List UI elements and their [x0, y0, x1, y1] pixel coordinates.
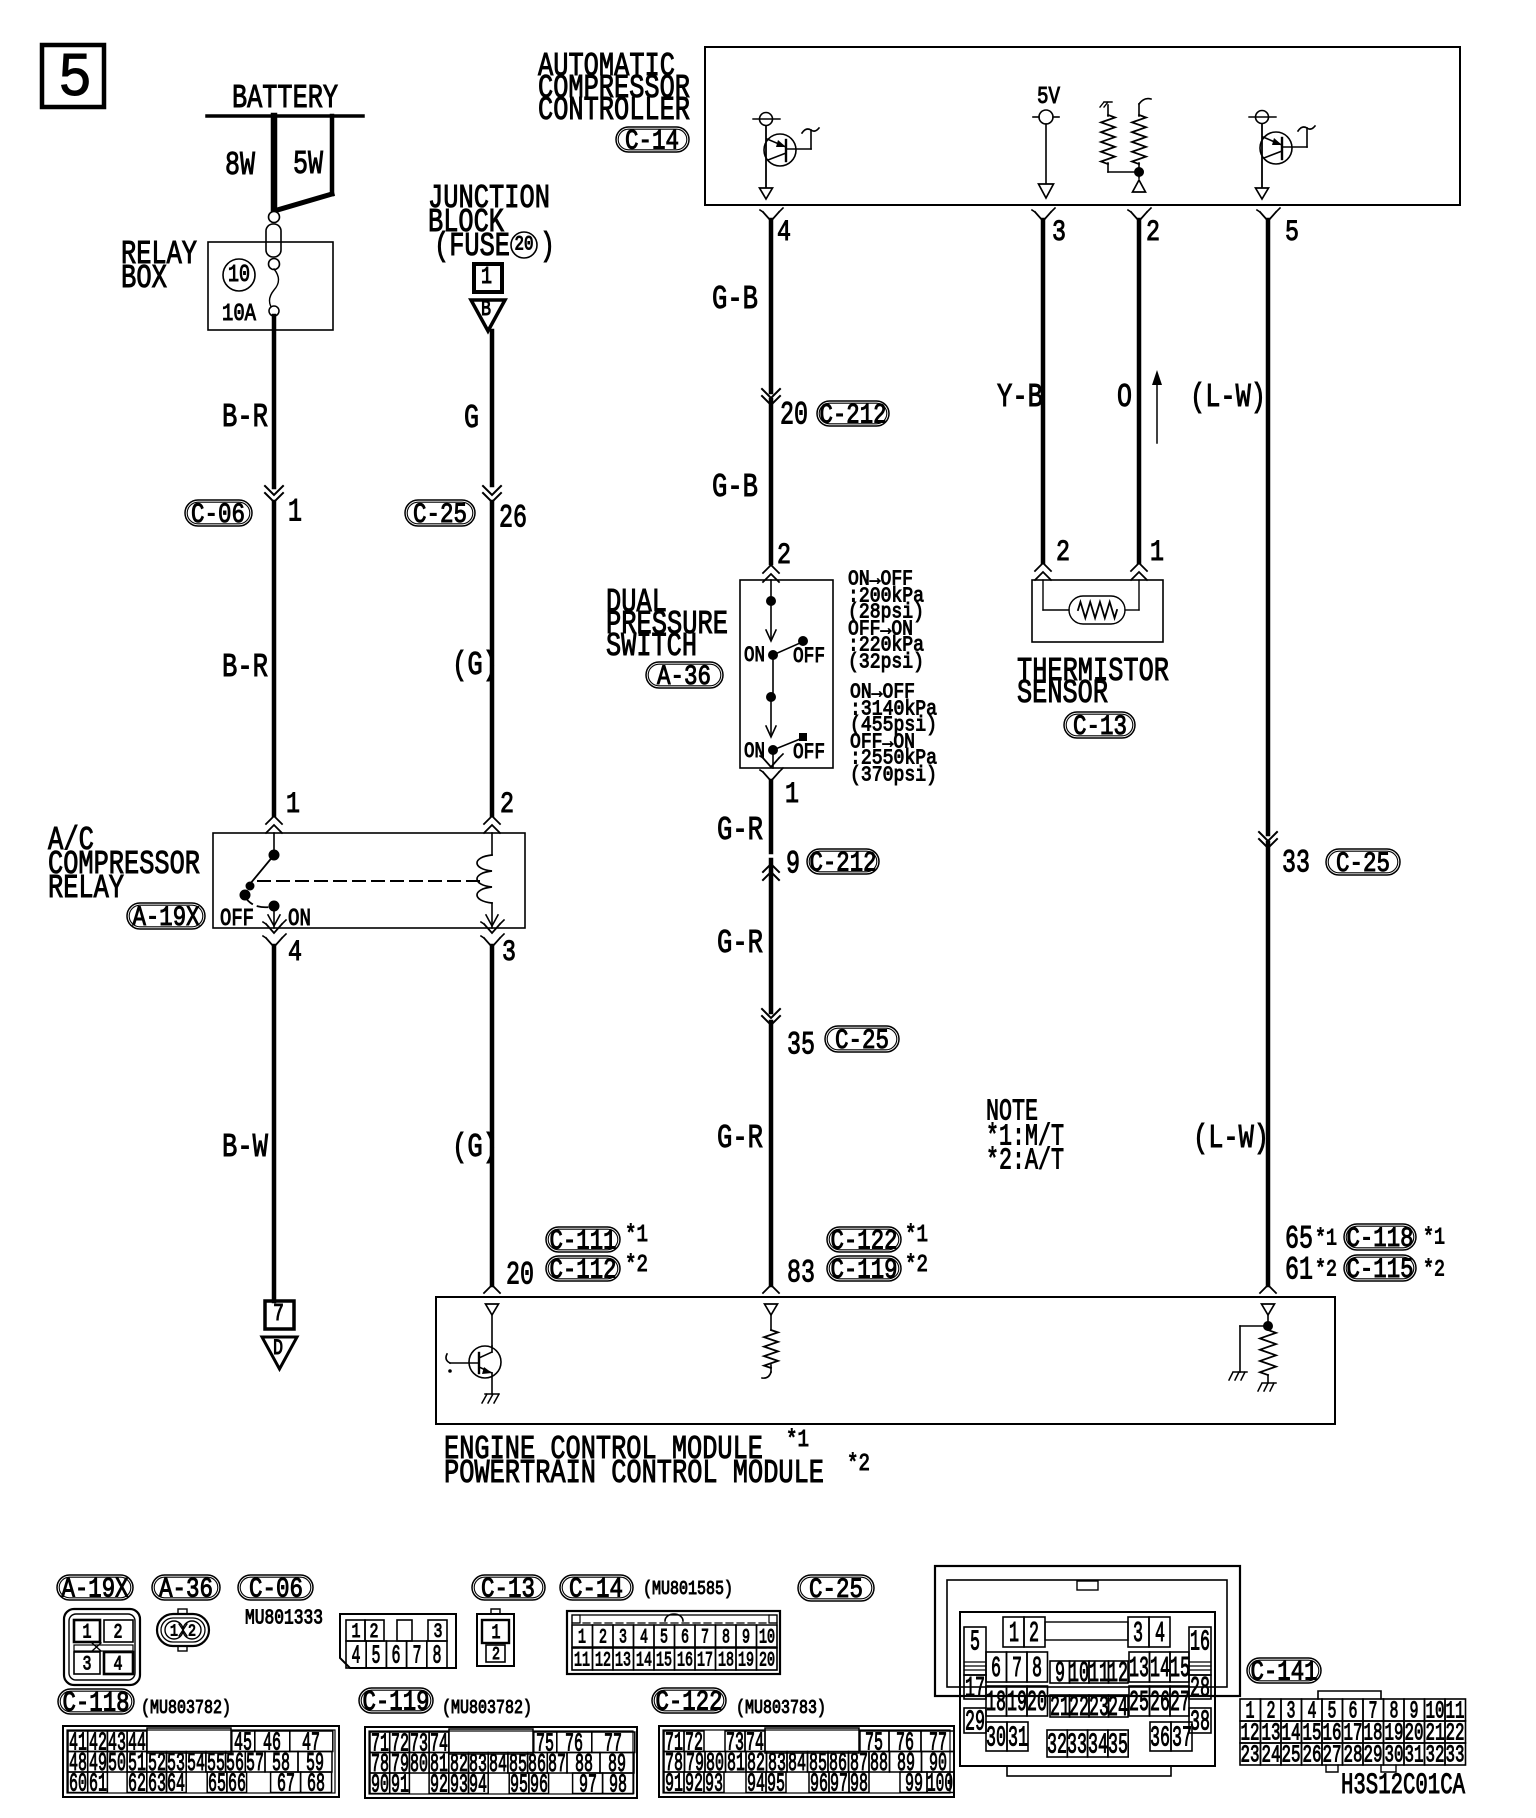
svg-text:): )	[540, 228, 555, 265]
svg-text:C-115: C-115	[1347, 1255, 1414, 1286]
relay pin 2	[484, 788, 514, 833]
connector C-13 pin view	[477, 1609, 514, 1666]
svg-text:A-36: A-36	[159, 1574, 213, 1605]
connector C-25 pin view (shell)	[935, 1566, 1240, 1696]
connector C-111/C-112 labels at ECM (pin 20)	[506, 1222, 648, 1293]
svg-text:28: 28	[1344, 1743, 1363, 1770]
C-25 side cells 5,16	[964, 1626, 1211, 1675]
svg-text:1: 1	[481, 264, 492, 291]
svg-text:5W: 5W	[293, 146, 323, 183]
svg-text:2: 2	[114, 1621, 123, 1644]
wire G-B (C-212 to pressure switch pin 2)	[712, 400, 771, 563]
svg-text:8: 8	[1032, 1652, 1042, 1685]
svg-text:60: 60	[69, 1769, 87, 1799]
thermistor sensor C-13	[1017, 580, 1169, 743]
A/C compressor relay A-19X box	[48, 822, 525, 934]
blank cell C-122 row1	[765, 1728, 859, 1753]
svg-text:11: 11	[1089, 1657, 1109, 1690]
connector A-36 pin view	[157, 1609, 209, 1651]
part number MU803782 (C-118)	[141, 1697, 231, 1719]
svg-text:16: 16	[677, 1649, 693, 1672]
svg-text:33: 33	[1282, 844, 1310, 881]
svg-text:*2: *2	[1423, 1257, 1445, 1283]
svg-text:2: 2	[599, 1626, 607, 1649]
svg-text:C-212: C-212	[810, 848, 877, 879]
svg-text:C-13: C-13	[1073, 712, 1127, 743]
svg-text:18: 18	[718, 1649, 734, 1672]
svg-text:5: 5	[970, 1626, 980, 1659]
relay pin 3	[481, 920, 516, 970]
svg-text:7: 7	[273, 1301, 284, 1328]
svg-text:80: 80	[410, 1749, 428, 1779]
part number MU801333	[245, 1607, 323, 1630]
svg-text:B-R: B-R	[222, 399, 268, 436]
svg-text:33: 33	[1446, 1743, 1465, 1770]
svg-text:14: 14	[1150, 1652, 1170, 1685]
connector label C-06	[238, 1574, 313, 1605]
svg-text:1: 1	[492, 1622, 501, 1645]
connector C-119 pin view	[365, 1727, 637, 1800]
svg-text:9: 9	[786, 845, 800, 882]
wire L-W (C-25 to ECM)	[1193, 843, 1269, 1285]
relay switch contact	[220, 833, 311, 933]
svg-text:4: 4	[352, 1641, 361, 1671]
connector C-118 pin view	[63, 1726, 339, 1799]
transistor Q2 in controller	[1249, 111, 1315, 200]
svg-text:*1: *1	[625, 1222, 648, 1249]
svg-text:(MU801585): (MU801585)	[643, 1578, 733, 1600]
svg-text:C-25: C-25	[1336, 849, 1390, 880]
svg-text:8: 8	[722, 1626, 730, 1649]
connector C-25 inline (pin 35)	[762, 1009, 899, 1063]
svg-text:4: 4	[288, 936, 302, 970]
wire B-R (C-06 to relay pin 1)	[222, 502, 274, 815]
svg-text:*2: *2	[1315, 1257, 1337, 1283]
svg-text:SWITCH: SWITCH	[606, 628, 697, 665]
svg-text:A-19X: A-19X	[133, 903, 200, 934]
ECM pin entry (G-R wire)	[763, 1285, 779, 1293]
svg-text:8: 8	[433, 1641, 442, 1671]
svg-text:(MU803782): (MU803782)	[141, 1697, 231, 1719]
svg-text:C-118: C-118	[63, 1688, 130, 1719]
svg-text:RELAY: RELAY	[48, 870, 124, 907]
svg-text:2: 2	[1056, 536, 1070, 570]
svg-text:20: 20	[515, 234, 534, 257]
svg-text:C-25: C-25	[809, 1575, 863, 1606]
connector C-212 inline (pin 20)	[762, 389, 889, 433]
svg-text:B: B	[481, 297, 491, 322]
svg-text:61: 61	[1285, 1251, 1313, 1288]
svg-text:MU801333: MU801333	[245, 1607, 323, 1630]
svg-text:H3S12C01CA: H3S12C01CA	[1341, 1769, 1465, 1803]
svg-text:C-119: C-119	[831, 1255, 898, 1286]
svg-text:13: 13	[1129, 1652, 1149, 1685]
resistor R4 and ground in ECM	[1229, 1322, 1276, 1392]
svg-text:97: 97	[830, 1769, 848, 1799]
transistor Q3 in ECM	[446, 1346, 501, 1403]
svg-text:3: 3	[83, 1653, 92, 1676]
svg-text:*1: *1	[786, 1427, 809, 1454]
svg-text:15: 15	[1170, 1652, 1190, 1685]
svg-text:17: 17	[697, 1649, 713, 1672]
svg-text:9: 9	[1055, 1657, 1065, 1690]
svg-text:29: 29	[1364, 1743, 1383, 1770]
svg-text:8W: 8W	[225, 147, 255, 184]
svg-text:(32psi): (32psi)	[848, 651, 924, 674]
connector label C-13	[472, 1574, 545, 1605]
svg-text:19: 19	[738, 1649, 754, 1672]
svg-text:94: 94	[469, 1770, 487, 1800]
blank cell C-118 row1	[147, 1728, 231, 1753]
svg-text:24: 24	[1108, 1691, 1128, 1724]
svg-text:10A: 10A	[222, 301, 256, 328]
svg-text:19: 19	[1007, 1686, 1027, 1719]
wire B-W (relay to terminal 7)	[222, 946, 274, 1301]
svg-text:C-141: C-141	[1251, 1657, 1318, 1688]
svg-text:32: 32	[1426, 1743, 1445, 1770]
svg-text:B-R: B-R	[222, 649, 268, 686]
svg-text:91: 91	[665, 1769, 683, 1799]
svg-text:C-119: C-119	[363, 1687, 430, 1718]
svg-text:1: 1	[288, 493, 302, 530]
svg-text:C-06: C-06	[249, 1574, 303, 1605]
svg-text:93: 93	[705, 1769, 723, 1799]
svg-text:29: 29	[965, 1706, 985, 1739]
wire 8W from battery	[225, 116, 274, 213]
svg-text:21: 21	[1050, 1691, 1070, 1724]
wire Y-B (controller pin 3 to thermistor pin 2)	[997, 220, 1043, 562]
svg-text:7: 7	[1012, 1652, 1022, 1685]
svg-text:26: 26	[1150, 1686, 1170, 1719]
svg-text:24: 24	[1262, 1743, 1281, 1770]
svg-text:G-R: G-R	[717, 812, 763, 849]
connector label C-119	[359, 1687, 433, 1718]
svg-text:9: 9	[742, 1626, 750, 1649]
svg-text:95: 95	[510, 1770, 528, 1800]
svg-text:OFF: OFF	[793, 644, 825, 669]
svg-text:2: 2	[188, 1622, 196, 1641]
svg-text:26: 26	[1303, 1743, 1322, 1770]
page number 5 box	[42, 43, 104, 114]
svg-text:31: 31	[1008, 1722, 1028, 1755]
direction arrow beside wire O	[1152, 370, 1162, 443]
controller pin 4	[760, 208, 791, 250]
svg-text:5: 5	[372, 1641, 381, 1671]
svg-text:3: 3	[502, 936, 516, 970]
svg-text:POWERTRAIN CONTROL MODULE: POWERTRAIN CONTROL MODULE	[444, 1455, 824, 1492]
C-25 side cells 17,28	[964, 1672, 1211, 1705]
svg-text:1: 1	[1150, 536, 1164, 570]
svg-text:68: 68	[307, 1769, 325, 1799]
svg-text:32: 32	[1047, 1729, 1067, 1762]
svg-text:G: G	[464, 400, 479, 437]
connector label C-122	[652, 1687, 726, 1718]
svg-text:18: 18	[986, 1686, 1006, 1719]
svg-text:(G): (G)	[452, 1129, 498, 1166]
svg-text:100: 100	[927, 1769, 953, 1799]
svg-text:*2: *2	[625, 1252, 648, 1279]
svg-text:(L-W): (L-W)	[1190, 379, 1266, 416]
svg-text:97: 97	[579, 1770, 597, 1800]
connector C-25 inline	[405, 486, 527, 536]
relay pin 4	[263, 920, 302, 970]
transistor Q1 in controller	[753, 113, 819, 200]
svg-text:OFF: OFF	[220, 906, 254, 933]
svg-text:7: 7	[413, 1641, 422, 1671]
svg-text:12: 12	[595, 1649, 611, 1672]
svg-text:96: 96	[530, 1770, 548, 1800]
connector C-122/C-119 labels at ECM (pin 83)	[787, 1222, 928, 1291]
connector label C-25	[798, 1575, 874, 1606]
junction block (fuse 20)	[428, 180, 555, 265]
svg-text:(370psi): (370psi)	[850, 764, 937, 787]
svg-text:C-25: C-25	[835, 1026, 889, 1057]
svg-text:G-B: G-B	[712, 281, 758, 318]
relay coil	[477, 833, 498, 928]
C-25 cells row 1 (1,2,3,4)	[1003, 1617, 1170, 1650]
ECM pin entry (L-W wire)	[1260, 1285, 1276, 1293]
svg-text:14: 14	[636, 1649, 652, 1672]
svg-text:15: 15	[656, 1649, 672, 1672]
svg-text:2: 2	[1146, 216, 1160, 250]
svg-text:61: 61	[89, 1769, 107, 1799]
ECM pin entry (G wire)	[484, 1285, 500, 1293]
svg-text:36: 36	[1150, 1722, 1170, 1755]
wire G-B (controller pin 4 to C-212)	[712, 220, 771, 392]
svg-text:1: 1	[578, 1626, 586, 1649]
svg-text:4: 4	[777, 216, 791, 250]
svg-text:6: 6	[991, 1652, 1001, 1685]
svg-text:G-R: G-R	[717, 1120, 763, 1157]
wire G (junction block to C-25)	[464, 331, 492, 485]
svg-text:28: 28	[1190, 1672, 1210, 1705]
wire G-R (pressure switch to C-212)	[717, 781, 771, 852]
svg-text:33: 33	[1067, 1729, 1087, 1762]
connector C-212 inline (pin 9)	[763, 845, 879, 882]
terminal triangle D	[262, 1336, 297, 1369]
svg-text:5: 5	[1285, 216, 1299, 250]
svg-text:(G): (G)	[452, 647, 498, 684]
connector C-122 pin view	[659, 1726, 954, 1799]
connector C-118/C-115 labels at ECM (pins 65/61)	[1285, 1220, 1445, 1288]
wire G-R (C-212 to C-25)	[717, 860, 771, 1012]
resistor R3 in ECM	[762, 1330, 778, 1378]
svg-text:31: 31	[1405, 1743, 1424, 1770]
svg-text:35: 35	[1108, 1729, 1128, 1762]
pressure values for contact 2	[850, 681, 937, 787]
svg-text:C-111: C-111	[550, 1226, 617, 1257]
terminal triangle B	[471, 297, 505, 331]
svg-text:34: 34	[1088, 1729, 1108, 1762]
svg-text:C-112: C-112	[550, 1255, 617, 1286]
svg-text:1: 1	[286, 788, 300, 822]
svg-text:*2:A/T: *2:A/T	[986, 1144, 1064, 1179]
svg-text:3: 3	[619, 1626, 627, 1649]
svg-text:35: 35	[787, 1026, 815, 1063]
svg-text:65: 65	[208, 1769, 226, 1799]
svg-text:BATTERY: BATTERY	[232, 80, 338, 117]
5V supply in controller	[1033, 84, 1060, 198]
controller pin 3	[1032, 208, 1066, 250]
svg-text:20: 20	[780, 396, 808, 433]
svg-text:3: 3	[1052, 216, 1066, 250]
svg-text:57: 57	[246, 1748, 264, 1778]
svg-text:5: 5	[58, 43, 92, 114]
C-25 side cells 29,38	[964, 1706, 1211, 1739]
C-25 cells row 3 (18-27)	[986, 1686, 1190, 1724]
svg-text:64: 64	[167, 1769, 185, 1799]
svg-text:30: 30	[1385, 1743, 1404, 1770]
svg-text:6: 6	[681, 1626, 689, 1649]
C-25 cells row 4 (30-37)	[986, 1722, 1192, 1762]
svg-text:C-118: C-118	[1347, 1224, 1414, 1255]
svg-text:1: 1	[170, 1622, 178, 1641]
svg-text:37: 37	[1172, 1722, 1192, 1755]
svg-text:16: 16	[1190, 1626, 1210, 1659]
connector C-25 inline (pin 33)	[1259, 832, 1400, 881]
svg-text:62: 62	[128, 1769, 146, 1799]
svg-text:96: 96	[810, 1769, 828, 1799]
svg-text:25: 25	[1129, 1686, 1149, 1719]
terminal box 7	[265, 1301, 294, 1329]
connector A-19X pin view	[64, 1609, 140, 1685]
connector label C-14	[560, 1574, 633, 1605]
thermistor pin 2	[1035, 536, 1070, 580]
wire (G) (C-25 to relay pin 2)	[452, 502, 498, 815]
wire L-W (controller pin 5 to C-25)	[1266, 220, 1271, 834]
diagram code H3S12C01CA	[1341, 1769, 1465, 1803]
svg-text:G-R: G-R	[717, 925, 763, 962]
svg-text:G-B: G-B	[712, 469, 758, 506]
svg-text:87: 87	[548, 1749, 566, 1779]
pressure switch pin 1	[760, 754, 799, 812]
controller pin 5	[1257, 208, 1299, 250]
svg-text:4: 4	[1155, 1617, 1165, 1650]
svg-text:93: 93	[450, 1770, 468, 1800]
fuse 10 (10A) in relay box	[222, 259, 279, 328]
svg-text:91: 91	[391, 1770, 409, 1800]
svg-text:CONTROLLER: CONTROLLER	[538, 92, 690, 129]
part number MU803782 (C-119)	[442, 1697, 532, 1719]
relay pin 1	[266, 788, 300, 833]
relay dashed link	[258, 880, 480, 882]
svg-text:3: 3	[1133, 1617, 1143, 1650]
svg-text:6: 6	[392, 1641, 401, 1671]
connector label A-36	[152, 1574, 220, 1605]
svg-text:ON: ON	[288, 906, 311, 933]
svg-text:66: 66	[228, 1769, 246, 1799]
ECM internal pin mark (G-R wire)	[765, 1304, 778, 1330]
connector C-14 pin view	[567, 1611, 780, 1674]
wire (G) (relay to ECM pin 20)	[452, 946, 498, 1285]
part number MU801585	[643, 1578, 733, 1600]
svg-text:83: 83	[787, 1254, 815, 1291]
wire G-R (C-25 to ECM)	[717, 1022, 771, 1285]
svg-text:*2: *2	[847, 1451, 870, 1478]
(L-W) label near controller	[1190, 379, 1266, 416]
svg-text:10: 10	[228, 262, 250, 289]
svg-text:1: 1	[1009, 1617, 1019, 1650]
svg-text:Y-B: Y-B	[997, 379, 1043, 416]
svg-text:2: 2	[492, 1645, 500, 1665]
svg-text:4: 4	[640, 1626, 648, 1649]
wire O (controller pin 2 to thermistor pin 1)	[1117, 220, 1139, 562]
svg-text:C-14: C-14	[569, 1574, 623, 1605]
svg-text:95: 95	[767, 1769, 785, 1799]
engine control module box	[436, 1297, 1335, 1492]
connector C-25 pin view (body)	[960, 1612, 1215, 1776]
svg-text:D: D	[273, 1336, 283, 1361]
thermistor pin 1	[1131, 536, 1164, 580]
svg-text:(FUSE: (FUSE	[434, 228, 510, 265]
svg-text:*2: *2	[905, 1252, 928, 1279]
svg-text:A-19X: A-19X	[62, 1574, 129, 1605]
pressure switch contact 1 (low)	[744, 580, 825, 697]
svg-text:C-212: C-212	[820, 400, 887, 431]
relay box	[121, 236, 333, 330]
resistor R2 in controller	[1132, 99, 1151, 192]
svg-text:C-14: C-14	[625, 126, 679, 157]
pressure switch contact 2 (high)	[744, 693, 825, 769]
svg-text:30: 30	[986, 1722, 1006, 1755]
svg-text:10: 10	[759, 1626, 775, 1649]
svg-text:20: 20	[506, 1256, 534, 1293]
svg-text:5V: 5V	[1037, 84, 1060, 111]
connector label C-141	[1247, 1657, 1321, 1688]
svg-text:B-W: B-W	[222, 1129, 268, 1166]
svg-text:81: 81	[727, 1748, 745, 1778]
svg-text:88: 88	[870, 1748, 888, 1778]
svg-text:38: 38	[1190, 1706, 1210, 1739]
svg-text:63: 63	[148, 1769, 166, 1799]
svg-text:(L-W): (L-W)	[1193, 1120, 1269, 1157]
part number MU803783 (C-122)	[736, 1697, 826, 1719]
svg-text:(MU803783): (MU803783)	[736, 1697, 826, 1719]
svg-text:7: 7	[701, 1626, 709, 1649]
svg-text:10: 10	[1069, 1657, 1089, 1690]
svg-text:ON: ON	[744, 643, 765, 668]
pressure switch pin 2	[763, 539, 791, 582]
connector C-06 pin view	[340, 1614, 456, 1671]
svg-text:50: 50	[108, 1748, 126, 1778]
resistor R1 in controller	[1100, 102, 1139, 172]
wire 5W from battery	[274, 116, 332, 211]
pressure values for contact 1	[848, 568, 924, 674]
svg-text:13: 13	[615, 1649, 631, 1672]
svg-text:90: 90	[371, 1770, 389, 1800]
dual pressure switch A-36	[606, 580, 833, 768]
svg-text:98: 98	[850, 1769, 868, 1799]
ECM internal pin mark (L-W wire)	[1262, 1304, 1275, 1326]
svg-text:(MU803782): (MU803782)	[442, 1697, 532, 1719]
svg-text:5: 5	[660, 1626, 668, 1649]
terminal box 1 (junction block)	[474, 264, 502, 292]
svg-text:92: 92	[685, 1769, 703, 1799]
svg-text:12: 12	[1108, 1657, 1128, 1690]
ECM internal pin mark (G wire)	[486, 1304, 499, 1346]
battery	[207, 80, 363, 117]
svg-text:*1: *1	[1315, 1226, 1337, 1252]
controller pin 2	[1128, 208, 1160, 250]
svg-text:A-36: A-36	[657, 662, 711, 693]
connector C-141 pin view	[1240, 1691, 1466, 1772]
svg-text:BOX: BOX	[121, 260, 167, 297]
svg-text:O: O	[1117, 379, 1132, 416]
svg-text:25: 25	[1282, 1743, 1301, 1770]
svg-text:20: 20	[759, 1649, 775, 1672]
svg-text:94: 94	[747, 1769, 765, 1799]
svg-text:67: 67	[277, 1769, 295, 1799]
